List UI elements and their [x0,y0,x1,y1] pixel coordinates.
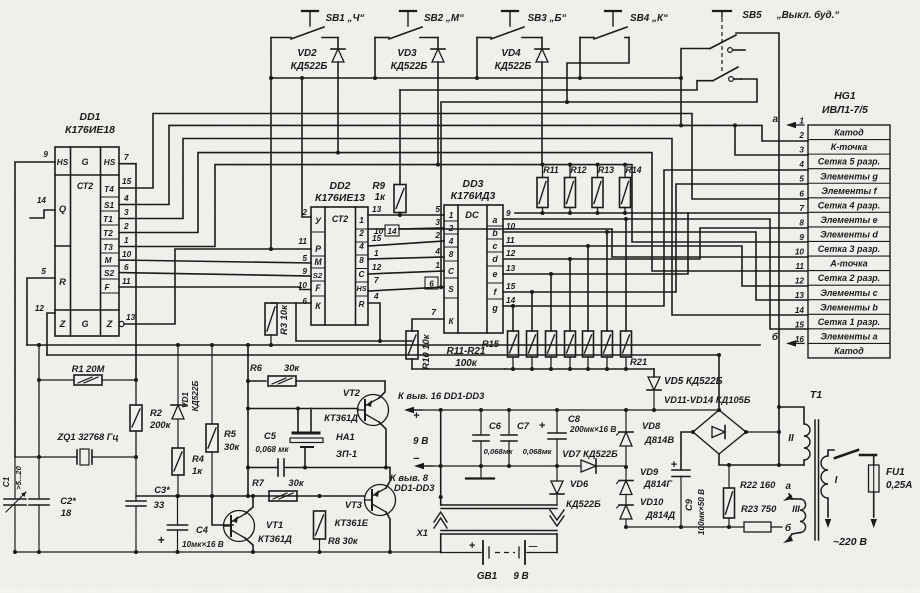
diode VD9 zener [617,465,634,505]
svg-text:3: 3 [124,208,129,217]
pushbutton SB2 [373,11,438,80]
transformer T1 winding I [821,450,834,517]
wire DD2-DD3 4 [368,257,444,259]
resistor R6 [246,345,385,498]
svg-text:15: 15 [506,282,516,291]
svg-text:R5: R5 [224,429,237,439]
svg-text:+: + [539,420,546,432]
wire DD1 pin 13 [119,249,311,327]
svg-text:Элементы a: Элементы a [820,331,877,341]
label ZQ1 [56,432,118,442]
svg-text:DC: DC [465,210,479,220]
diode VD5 [647,369,661,412]
battery GB1 [441,540,557,564]
label C8 [568,414,616,434]
svg-text:Элементы e: Элементы e [820,215,877,225]
svg-text:C: C [359,270,366,279]
svg-text:SB4 „К“: SB4 „К“ [630,13,668,24]
wire DD1 pin 10 M [119,260,311,263]
svg-text:1: 1 [374,249,379,258]
svg-text:16: 16 [795,335,805,344]
wire SB5 pole1 left [679,49,710,128]
svg-text:>5...20: >5...20 [14,465,23,489]
resistor R2 [130,380,142,459]
svg-text:~220 В: ~220 В [833,537,867,548]
label C6 [484,421,514,456]
connector X1 pins [434,510,564,528]
label R9 [372,181,386,203]
svg-text:200мк×16 В: 200мк×16 В [569,425,616,434]
svg-text:С9: С9 [684,498,694,511]
svg-text:Сетка 5 разр.: Сетка 5 разр. [818,157,880,167]
wire net T2 [119,153,808,271]
svg-text:4: 4 [123,194,129,203]
display HG1 table [808,125,890,358]
capacitor C1 variable [4,457,26,552]
wire DD3 output b [503,230,808,331]
svg-text:VD3: VD3 [397,48,417,59]
diode VD4 [535,49,549,165]
svg-text:КД522Б: КД522Б [191,381,200,412]
label HG1 [822,91,868,116]
svg-text:33: 33 [154,500,165,510]
pushbutton SB4 [565,11,629,104]
svg-text:+: + [469,540,476,552]
label VT2 [324,388,361,423]
wire DD3 output e [503,213,808,331]
svg-text:13: 13 [126,313,136,322]
IC DD1 internal labels [57,157,116,329]
svg-text:Сетка 3 разр.: Сетка 3 разр. [818,244,880,254]
svg-text:C5: C5 [264,431,277,441]
svg-text:Элементы b: Элементы b [820,302,878,312]
label VD11-VD14 [664,395,751,405]
svg-text:2: 2 [434,231,440,240]
svg-text:VD9: VD9 [640,467,659,477]
svg-text:I: I [835,475,838,486]
svg-text:ЗП-1: ЗП-1 [336,449,357,459]
wire DD3 output c [503,244,808,331]
svg-text:R4: R4 [192,454,205,464]
wire R11-R14 bottom line [515,212,688,214]
svg-text:R8 30к: R8 30к [328,536,359,546]
wire DD2 pin R loop [368,303,382,343]
wire DD2 pin У [300,76,311,217]
switch SB5 pole1 [710,35,745,52]
label R2 [149,408,172,430]
svg-text:К176ИЕ18: К176ИЕ18 [65,125,115,136]
svg-text:4: 4 [373,292,379,301]
label C1 [2,465,23,489]
svg-text:9 В: 9 В [513,571,528,582]
svg-text:3: 3 [799,146,804,155]
connector X1 upper half [441,497,557,509]
capacitor C3 [126,457,146,554]
wire HG1 pin 16 cathode b [772,332,804,347]
svg-text:СТ2: СТ2 [332,214,348,224]
svg-text:КТ361Д: КТ361Д [324,413,358,423]
label VT1 [258,520,292,544]
label C2 [60,496,76,518]
svg-text:C2*: C2* [60,496,76,506]
svg-text:—: — [528,541,538,551]
label VD10 [640,497,675,520]
label R4 [192,454,205,476]
IC DD2 pin numbers [298,205,382,306]
label DD3 pin 6 box [425,277,438,289]
svg-text:5: 5 [302,254,307,263]
label R15 [482,339,500,349]
label SB5 [742,10,839,21]
svg-text:VD7 КД522Б: VD7 КД522Б [562,449,618,459]
diode VD1 [171,345,185,448]
svg-text:4: 4 [798,160,804,169]
svg-text:100мк×50 В: 100мк×50 В [697,489,706,535]
capacitor C4 [157,496,187,554]
svg-text:R14: R14 [625,165,641,175]
svg-text:VD11-VD14 КД105Б: VD11-VD14 КД105Б [664,395,751,405]
svg-text:Сетка 1 разр.: Сетка 1 разр. [818,317,880,327]
svg-text:FU1: FU1 [886,467,905,478]
wire DD3 output a [503,217,808,331]
wire DD2-DD3 6 [368,287,444,291]
svg-text:HG1: HG1 [834,91,856,102]
svg-text:1: 1 [124,236,129,245]
svg-text:III: III [792,504,800,514]
wire SB5 pole2 contact [439,79,757,289]
svg-text:DD3: DD3 [463,179,484,190]
svg-text:7: 7 [799,204,804,213]
svg-text:S2: S2 [104,269,115,278]
common bar [466,477,494,479]
labels R11-R14 [543,165,641,175]
svg-text:Элементы c: Элементы c [820,288,877,298]
svg-text:8: 8 [799,218,804,227]
label C9 [684,489,706,535]
wire bus gnd [47,353,721,357]
svg-text:13: 13 [372,205,382,214]
svg-text:Д814В: Д814В [644,435,674,445]
svg-text:10: 10 [795,248,805,257]
label R1 [72,364,105,374]
capacitor C9 [671,459,690,529]
svg-text:II: II [788,433,794,444]
wire VT2 collector [379,381,388,470]
resistor R5 [206,343,218,498]
wire supply 8 [414,463,443,469]
label HA1 [336,432,357,459]
svg-text:5: 5 [41,267,46,276]
svg-text:R21: R21 [630,357,647,367]
wire VT3 collector [386,512,392,554]
svg-text:S2: S2 [313,271,323,280]
svg-text:ZQ1 32768 Гц: ZQ1 32768 Гц [56,432,118,442]
svg-text:2: 2 [358,229,364,238]
svg-text:R6: R6 [250,363,263,373]
svg-text:S1: S1 [104,201,115,210]
wire net A-dot [368,229,808,257]
transistor VT1 [224,511,255,542]
wire DD1 pin 11 F [119,287,311,290]
svg-text:d: d [492,254,498,264]
svg-text:SB2 „М“: SB2 „М“ [424,13,464,24]
wire DD1 pin 5 [27,278,55,345]
svg-text:1к: 1к [192,466,203,476]
wire DD1 pin 14 pulse input [30,210,55,218]
label VT3 [335,500,369,528]
svg-text:HS: HS [57,158,69,167]
wire DD2 pin К loop [296,303,412,341]
label winding II [788,433,794,444]
svg-text:HS: HS [104,158,116,167]
svg-text:0,068мк: 0,068мк [523,447,553,456]
wire alarm node [248,459,390,476]
label C5 [255,431,289,454]
svg-text:1: 1 [359,216,364,225]
svg-text:С6: С6 [489,421,502,431]
svg-text:а: а [773,114,779,125]
label R21 [630,357,647,367]
label GB1 [477,571,529,582]
svg-text:30к: 30к [284,363,300,373]
svg-text:2: 2 [123,222,129,231]
svg-text:ИВЛ1-7/5: ИВЛ1-7/5 [822,105,868,116]
svg-text:VD6: VD6 [570,479,589,489]
svg-text:А-точка: А-точка [829,259,867,269]
svg-text:7: 7 [431,308,436,317]
wire supply 16 [404,407,719,413]
svg-text:11: 11 [122,277,131,286]
svg-text:КД522Б: КД522Б [391,61,428,72]
svg-text:C4: C4 [196,525,209,535]
svg-text:Z: Z [106,319,113,329]
svg-text:G: G [82,319,89,329]
pushbutton SB3 [475,11,542,80]
svg-text:e: e [493,269,498,279]
svg-text:R12: R12 [570,165,586,175]
label DD2 [315,181,365,204]
wire bottom gnd bus [13,550,441,554]
svg-text:T1: T1 [103,215,113,224]
svg-text:Q: Q [59,204,67,214]
svg-text:R10 10к: R10 10к [421,333,431,369]
svg-text:+: + [157,533,164,547]
resistor R7 [269,491,297,501]
wire SB5 top to anode rail [736,33,781,465]
switch SB5 actuator [713,11,731,72]
wire DD2-DD3 2 [399,228,444,229]
svg-text:HS: HS [357,285,367,293]
diode VD10 zener [617,505,634,529]
wire DD3 output d [503,228,808,331]
wire minus line [441,465,557,467]
display HG1 pin numbers [795,117,805,344]
svg-text:4: 4 [434,247,440,256]
IC DD2 internal labels [313,214,367,311]
svg-text:Д814Г: Д814Г [643,479,673,489]
svg-text:Элементы d: Элементы d [820,230,878,240]
wire DD3 output f [503,184,808,331]
svg-text:C1: C1 [2,476,11,487]
piezo HA1 [290,407,323,470]
wire DD2-DD3 1 [368,214,444,216]
wire common button bus [269,38,681,252]
svg-text:R7: R7 [252,478,265,488]
svg-text:R13: R13 [598,165,614,175]
svg-text:14: 14 [795,306,805,315]
svg-text:11: 11 [298,237,307,246]
capacitor C7 [501,408,517,468]
label VD3 [391,48,428,72]
label T1 [810,390,822,401]
svg-text:−: − [413,453,420,465]
svg-text:G: G [82,157,89,167]
svg-text:R3 10к: R3 10к [279,304,289,335]
svg-text:К выв. 8: К выв. 8 [390,473,429,483]
svg-text:Д814Д: Д814Д [645,510,675,520]
svg-text:15: 15 [795,320,805,329]
svg-text:10мк×16 В: 10мк×16 В [182,540,224,549]
svg-text:SB3 „Б“: SB3 „Б“ [528,13,567,24]
svg-text:НА1: НА1 [336,432,355,442]
label R5 [224,429,240,452]
wire winding III tap a [783,481,793,501]
wire DD1 pin 9 [15,162,55,457]
svg-text:SB1 „Ч“: SB1 „Ч“ [326,13,365,24]
diode VD7 [557,459,626,473]
wire minus rail riser [439,408,443,499]
svg-text:10: 10 [298,281,308,290]
svg-text:C: C [448,267,455,276]
svg-text:К176ИЕ13: К176ИЕ13 [315,193,365,204]
IC DD3 box [444,205,503,333]
wire oscillator node [136,494,365,525]
svg-text:3: 3 [435,218,440,227]
transistor VT3 [365,485,396,516]
wire bridge top riser [717,355,721,412]
svg-text:Катод: Катод [834,346,864,356]
transformer T1 winding III [792,499,806,534]
IC DD1 right column dividers [101,197,120,293]
wire DD2-DD3 5 [368,271,444,274]
wire DD2-DD3 3 [368,241,444,246]
wire HG1 pin 1 cathode a [773,114,805,128]
switch mains [835,450,876,465]
svg-text:SB5: SB5 [742,10,762,21]
resistors R11 R12 R13 R14 [537,163,631,215]
label 9V [413,410,428,465]
label VD1 [181,381,200,412]
svg-text:8: 8 [449,250,454,259]
svg-text:7: 7 [124,153,129,162]
label VD4 [495,48,532,72]
resistor R4 [172,448,184,498]
svg-text:a: a [493,215,498,225]
diode VD3 [431,49,445,167]
svg-text:S: S [448,285,454,294]
capacitor C2 [29,457,49,554]
label supply 8 [390,473,435,493]
svg-text:R: R [359,300,365,309]
svg-text:R1 20М: R1 20М [72,364,105,374]
label R8 [328,536,359,546]
svg-text:КД522Б: КД522Б [291,61,328,72]
wire bridge bottom [719,454,804,467]
svg-text:6: 6 [429,280,434,289]
svg-text:C3*: C3* [154,485,170,495]
svg-text:14: 14 [387,227,397,236]
svg-text:„Выкл. буд.“: „Выкл. буд.“ [776,10,840,21]
svg-text:К: К [315,301,321,311]
label winding I [835,475,838,486]
wire VT1 collector [245,538,255,554]
svg-text:Катод: Катод [834,128,864,138]
svg-text:К-точка: К-точка [831,142,867,152]
svg-text:GB1: GB1 [477,571,497,582]
label R10 [421,333,431,369]
svg-text:VD1: VD1 [181,392,190,408]
wire DD3 pin K [412,319,444,331]
resistor R3 [265,303,296,347]
wire net grid5 branch [735,125,808,155]
svg-text:Z: Z [59,319,66,329]
svg-text:С7: С7 [517,421,530,431]
resistor R22 [724,465,735,529]
wire VT1 emitter [245,494,255,514]
label R11-R21 100к [447,346,486,369]
wire DD1 pin 12 [47,313,55,355]
transistor VT2 [358,395,389,426]
svg-text:X1: X1 [416,528,428,538]
svg-text:VD8: VD8 [642,421,661,431]
svg-text:VT3: VT3 [345,500,363,510]
svg-text:T2: T2 [103,229,113,238]
svg-text:30к: 30к [224,442,240,452]
label VD7 [562,449,618,459]
svg-text:1к: 1к [375,192,386,203]
svg-text:9: 9 [506,209,511,218]
label R6 [250,363,300,373]
svg-text:T3: T3 [103,243,113,252]
wire mains left [825,519,831,528]
wire DD1 pin 7 [119,164,136,380]
svg-text:6: 6 [799,189,804,198]
svg-text:4: 4 [448,237,454,246]
IC DD1 right column labels [103,185,114,292]
resistor R10 [406,331,418,369]
wire winding III tap b [783,523,793,543]
svg-text:КД522Б: КД522Б [495,61,532,72]
label VD2 [291,48,328,72]
svg-text:К176ИД3: К176ИД3 [451,191,496,202]
svg-text:12: 12 [795,277,805,286]
svg-text:R23 750: R23 750 [741,504,777,514]
IC DD3 internal labels [448,210,499,326]
svg-text:12: 12 [35,304,45,313]
svg-text:13: 13 [506,264,516,273]
svg-text:КД522Б: КД522Б [566,499,601,509]
label SB3 [528,13,567,24]
svg-text:9: 9 [799,233,804,242]
svg-text:11: 11 [795,262,804,271]
svg-text:DD1-DD3: DD1-DD3 [394,483,435,493]
label FU1 [886,467,912,491]
label X1 [416,528,428,538]
svg-text:+: + [671,459,678,471]
IC DD3 dividers [444,221,503,299]
diode VD2 [331,49,345,155]
label R23 [741,504,777,514]
